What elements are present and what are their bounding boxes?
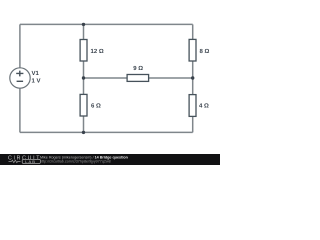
node junction mid-right	[191, 76, 194, 79]
wire right branch bottom (R4 to bottom wire)	[192, 116, 194, 132]
voltage source V1	[10, 68, 30, 88]
wire right branch lower (mid node to R4)	[192, 78, 194, 94]
svg-text:LAB: LAB	[25, 159, 36, 164]
resistor R4 8 ohm	[189, 39, 196, 61]
footer url line	[40, 159, 111, 164]
footer attribution line	[40, 155, 128, 160]
watermark footer bar	[0, 154, 220, 165]
node junction top	[82, 23, 85, 26]
resistor R5 4 ohm	[189, 95, 196, 117]
circuit schematic	[0, 0, 220, 165]
resistor R3 9 ohm (horizontal)	[127, 75, 149, 82]
resistor R2 6 ohm	[80, 94, 87, 116]
wire right branch upper (top wire to R8)	[192, 24, 194, 39]
resistor R1 12 ohm	[80, 40, 87, 62]
wire left vertical lower (from V1 bottom)	[19, 88, 21, 132]
wire middle horizontal right (R9 to right mid node)	[149, 77, 193, 79]
wire right branch middle (R8 to mid node)	[192, 61, 194, 78]
wire left branch upper (top node to R12)	[83, 24, 85, 39]
CircuitLab logo text CIRCUIT	[8, 155, 41, 161]
node junction bottom	[82, 131, 85, 134]
wire left branch bottom (R6 to bottom wire)	[83, 116, 85, 132]
wire bottom horizontal	[20, 131, 193, 133]
node junction mid-left	[82, 76, 85, 79]
wire left branch middle (R12 to mid node)	[83, 61, 85, 78]
wire left branch lower (mid node to R6)	[83, 78, 85, 94]
wire top horizontal	[20, 23, 193, 25]
CircuitLab logo zigzag and LAB box	[0, 0, 220, 165]
wire left vertical upper (to V1 top)	[19, 24, 21, 67]
wire middle horizontal left (mid node to R9)	[84, 77, 128, 79]
